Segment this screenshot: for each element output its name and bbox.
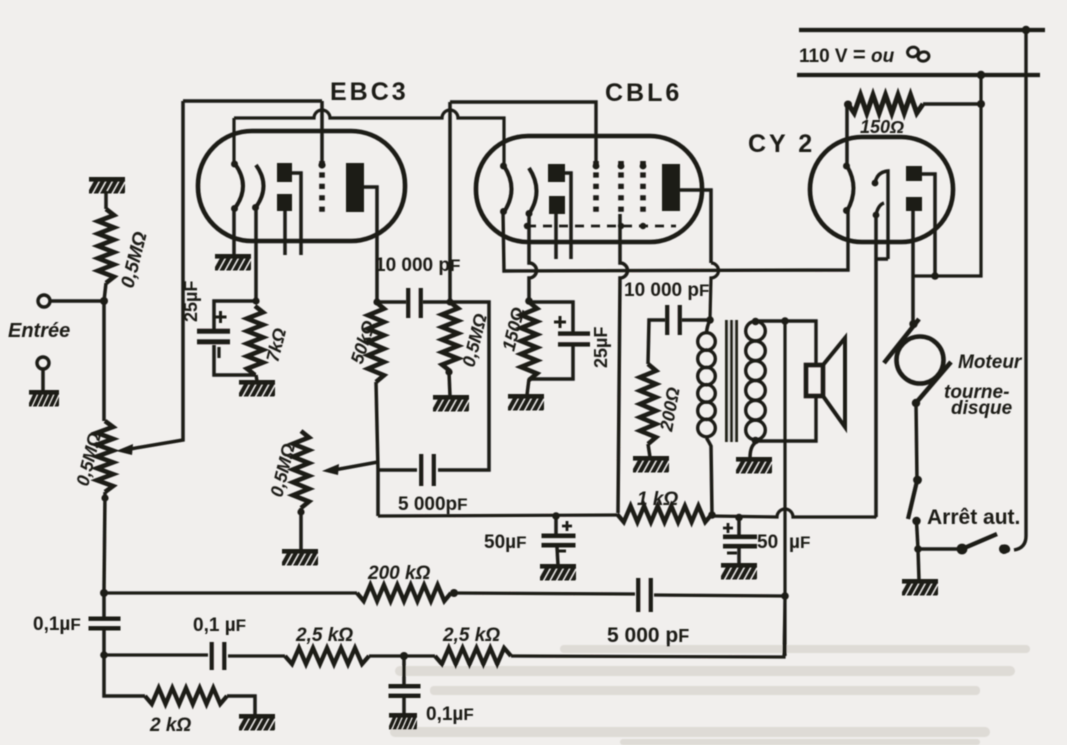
wire primary top connect	[707, 320, 711, 333]
wire arrow from EBC3 grid line to P1 wiper	[130, 101, 183, 449]
wire line E left section	[378, 515, 617, 516]
wire vertical from line A2 to coupling node	[448, 102, 452, 300]
wire C7 stub	[737, 518, 741, 535]
terminal Entree upper	[38, 295, 50, 307]
grid pins CBL6 upper square	[548, 164, 565, 182]
wire motor to switch S1	[916, 403, 917, 480]
internal dashed bus CBL6	[527, 225, 676, 228]
junction below P1	[101, 494, 108, 501]
wire R4 to ground	[449, 372, 450, 396]
filament bottom dot CY2	[843, 207, 850, 214]
ground CBL6 cathode	[507, 394, 550, 413]
internal bus dot 3	[640, 223, 646, 229]
wire line E corner up to CY2 cathode	[875, 515, 876, 519]
junction motor tap	[909, 320, 917, 328]
junction R4 bottom	[445, 368, 452, 375]
tube envelope CY2	[810, 137, 953, 242]
wire C1 bottom arm	[214, 345, 256, 375]
junction EBC3 plate load	[373, 298, 380, 305]
grid 2 top dot CBL6	[618, 163, 625, 170]
junction CBL6 cathode node	[525, 297, 533, 305]
junction line D at input column	[100, 651, 108, 659]
capacitor C5 10000pF	[665, 305, 682, 335]
minus tick C6	[556, 550, 566, 553]
junction switch node	[914, 545, 922, 553]
resistor R10 2,5 kOhm first	[285, 648, 369, 664]
wire line D seg3	[369, 654, 435, 657]
wire C4 bottom	[529, 346, 573, 379]
wire coupling node to tone cap branch	[438, 302, 489, 470]
wire R12 to ground	[227, 696, 255, 715]
switch S2 contact	[999, 544, 1010, 554]
junction primary top node	[706, 316, 714, 324]
svg-text:0,1µF: 0,1µF	[426, 704, 474, 725]
wire EBC3 plate to load junction	[364, 187, 377, 300]
svg-text:µF: µF	[789, 532, 810, 553]
svg-text:2 kΩ: 2 kΩ	[149, 715, 191, 736]
cathode hook upper CY2	[875, 171, 888, 259]
transformer T1 primary winding	[698, 333, 716, 437]
wire bias top arm to C1	[214, 301, 256, 331]
svg-text:7kΩ: 7kΩ	[262, 326, 290, 364]
minus tick C1	[217, 347, 220, 358]
junction tone divider	[400, 652, 408, 660]
grid 2 dashed CBL6	[618, 161, 624, 214]
capacitor C2 10000pF coupling	[406, 288, 423, 318]
svg-text:disque: disque	[951, 398, 1013, 419]
wire line D seg1	[104, 653, 208, 656]
ground secondary	[735, 457, 778, 476]
wire C5 right to primary node	[682, 318, 709, 322]
wire CY2 upper anode out	[922, 174, 935, 276]
node mains T2 tap	[977, 71, 985, 79]
wire line A2 coupling node to CBL6 grid	[450, 102, 596, 164]
heater arc CBL6	[504, 166, 512, 212]
heater arc bottom dot CBL6	[500, 208, 507, 215]
wire line D seg2	[228, 654, 285, 657]
svg-text:0,5MΩ: 0,5MΩ	[458, 312, 490, 369]
svg-text:2,5 kΩ: 2,5 kΩ	[295, 625, 353, 646]
terminal Entree lower	[37, 357, 49, 369]
resistor R8 1 kOhm filter	[617, 506, 712, 522]
svg-text:Moteur: Moteur	[958, 352, 1023, 373]
heater arc bottom dot EBC3	[231, 205, 238, 212]
cathode arc CBL6	[529, 168, 537, 214]
wire CBL6 lower square stub	[554, 214, 558, 259]
anode plate EBC3	[346, 163, 364, 212]
wire line C right	[654, 595, 785, 596]
wire CBL6 upper square stub	[565, 173, 571, 259]
cathode arc bottom dot CBL6	[526, 210, 533, 217]
speaker LS1 voice coil	[806, 365, 823, 396]
wire P1 bottom down to line C	[104, 492, 105, 592]
grid pins EBC3 lower square	[277, 194, 292, 211]
grid pins CBL6 lower square	[549, 196, 565, 214]
resistor R7 150 Ohm CY2 filament	[848, 95, 923, 113]
wire cathode jog	[876, 257, 888, 261]
svg-text:25µF: 25µF	[181, 281, 201, 322]
ground R12	[238, 714, 281, 733]
wire R2 bottom to ground	[256, 375, 257, 381]
svg-text:200Ω: 200Ω	[656, 386, 684, 434]
wire supply vertical to anodes	[913, 75, 981, 276]
wire junction to C2 left	[377, 300, 406, 304]
cathode arc EBC3	[256, 165, 264, 207]
heater arc top dot CBL6	[500, 163, 507, 170]
wire R5 to ground	[527, 379, 529, 395]
capacitor C8 5000pF	[636, 578, 653, 612]
wire line D seg4	[511, 597, 785, 657]
wire heater line B with crossover humps	[234, 110, 504, 166]
filament arc CY2	[847, 166, 854, 211]
tube envelope CBL6	[476, 136, 702, 242]
ground R4	[432, 395, 475, 414]
wire CBL6 heater bottom to supply line	[503, 212, 848, 271]
plus sign C6	[562, 521, 572, 531]
tube envelope EBC3	[198, 131, 405, 241]
grid column top dot EBC3	[318, 161, 325, 168]
minus tick C7	[727, 552, 737, 555]
capacitor C4 25uF electrolytic CBL6	[558, 331, 590, 346]
resistor R2 7 kOhm cathode EBC3	[247, 306, 263, 375]
potentiometer P1 0,5 MOhm volume	[97, 421, 113, 492]
svg-text:10 000 pF: 10 000 pF	[624, 280, 709, 301]
control grid dashed EBC3	[319, 161, 325, 213]
wire secondary top to speaker	[755, 321, 816, 365]
node A junction input	[100, 297, 108, 305]
grid 3 dashed CBL6	[640, 161, 646, 214]
junction below P2	[297, 508, 304, 515]
motor blade upper	[884, 319, 919, 363]
arrowhead on P1 wiper	[116, 444, 133, 455]
cathode arc bottom dot EBC3	[252, 204, 259, 211]
grid 1 dashed CBL6	[593, 161, 599, 214]
wire right border from T1 to switch	[1014, 30, 1026, 550]
wire C5 left to 200R	[648, 320, 665, 364]
wire R6 to ground	[648, 444, 650, 457]
wire CBL6 plate out	[680, 190, 711, 263]
wire primary bottom to 1k node	[707, 438, 713, 514]
junction R9 right	[450, 589, 458, 597]
wire EBC3 cathode down to bias network	[254, 208, 258, 300]
cathode hook upper dot	[872, 180, 879, 187]
potentiometer P2 0,5 MOhm tone	[293, 431, 309, 508]
ground C7	[720, 563, 763, 582]
wire C10 to ground	[402, 698, 406, 714]
wire C6 stub	[554, 517, 558, 534]
ground EBC3 heater	[214, 254, 257, 273]
resistor R3 50 kOhm plate load	[368, 302, 384, 382]
secondary top dot	[752, 318, 760, 326]
plus sign C7	[723, 523, 733, 533]
ground C10	[388, 713, 421, 732]
svg-text:CY 2: CY 2	[748, 130, 815, 158]
grid 1 top dot CBL6	[593, 163, 600, 170]
wire junction to S2 pivot	[918, 547, 960, 551]
wire EBC3 grid vertical	[320, 101, 324, 164]
wire node A down to potentiometer P1	[102, 301, 106, 421]
svg-text:200 kΩ: 200 kΩ	[367, 563, 431, 584]
heater arc EBC3	[235, 164, 243, 208]
resistor R9 200 kOhm	[357, 585, 451, 601]
grid pins EBC3 upper square	[277, 163, 292, 182]
junction coupling node grid CBL6	[446, 298, 453, 305]
wire P2 to ground	[299, 508, 303, 550]
svg-text:0,1µF: 0,1µF	[33, 614, 81, 635]
motor M1 turntable circle	[897, 337, 944, 384]
wire tone arrow	[334, 462, 378, 470]
wire secondary bottom to ground	[750, 443, 755, 458]
wire 50k bottom vertical to line E	[376, 382, 378, 516]
wire C7 to ground	[737, 548, 741, 565]
motor lower dot	[912, 399, 920, 407]
svg-text:50µF: 50µF	[484, 532, 526, 553]
switch S1 bottom dot	[912, 517, 920, 525]
arrowhead tone pot wiper	[322, 464, 339, 475]
wire secondary bottom to speaker	[755, 396, 816, 441]
ground C6	[539, 564, 582, 583]
filament top dot CY2	[843, 163, 850, 170]
R7 left dot	[844, 101, 852, 109]
svg-text:Entrée: Entrée	[8, 320, 70, 342]
wire divider to C10	[402, 656, 406, 686]
wire mains line T1 110V	[799, 28, 1045, 32]
wire CBL6 plate crossover hump	[710, 263, 719, 319]
wire C6 to ground	[557, 547, 558, 565]
capacitor C3 5000pF tone	[419, 454, 436, 486]
heater arc top dot EBC3	[231, 161, 238, 168]
junction EBC3 cathode bias top	[252, 297, 259, 304]
wire EBC3 lower square stub	[283, 211, 287, 255]
capacitor C1 25uF electrolytic	[197, 329, 230, 345]
switch S1 blade arret	[908, 481, 917, 519]
wire line C middle	[451, 593, 635, 594]
junction C6 top	[552, 512, 560, 520]
svg-text:150Ω: 150Ω	[860, 117, 904, 137]
wire CY2 cathode down to line E	[874, 215, 878, 517]
svg-text:25µF: 25µF	[591, 327, 611, 368]
resistor R5 150 Ohm cathode CBL6	[521, 302, 537, 380]
wire lower terminal to ground	[41, 369, 45, 391]
grid 3 top dot CBL6	[640, 163, 647, 170]
ground R6	[632, 456, 675, 475]
svg-text:0,1 µF: 0,1 µF	[193, 615, 246, 636]
capacitor C7 50uF electrolytic	[723, 535, 757, 549]
anode CY2 upper square	[906, 166, 922, 181]
wire ground to R1	[104, 191, 108, 209]
wire EBC3 upper square stub	[292, 173, 301, 255]
wire switch node to ground	[918, 549, 919, 580]
junction R8 right	[708, 511, 716, 519]
wire line A1 EBC3 grid to volume pot	[183, 99, 322, 103]
switch S1 top dot	[913, 476, 922, 485]
svg-text:2,5 kΩ: 2,5 kΩ	[442, 625, 500, 646]
svg-text:EBC3: EBC3	[330, 78, 409, 106]
anode plate CBL6	[662, 164, 680, 211]
wire S1 to junction	[917, 521, 919, 549]
ground switch node	[901, 579, 944, 598]
secondary bottom dot	[752, 437, 760, 445]
ground top of grid-leak resistor	[88, 177, 131, 196]
switch S2 pivot dot	[957, 544, 968, 555]
wire line C left	[104, 591, 357, 594]
motor blade lower	[915, 362, 951, 404]
capacitor C10 0,1uF	[389, 684, 421, 698]
svg-text:110 V = ou: 110 V = ou	[799, 42, 895, 67]
resistor R1 0,5 MOhm grid leak	[98, 209, 114, 283]
wire C2 right to coupling node	[423, 300, 449, 304]
transformer T1 core	[725, 320, 738, 442]
svg-text:50: 50	[757, 532, 778, 553]
wire CY2 filament to R7	[845, 104, 849, 166]
svg-text:CBL6: CBL6	[605, 79, 682, 107]
capacitor C9 0,1uF	[210, 642, 227, 670]
resistor R12 2 kOhm	[145, 688, 227, 704]
svg-text:10 000 pF: 10 000 pF	[375, 255, 460, 276]
resistor R11 2,5 kOhm second	[435, 648, 511, 664]
speaker LS1 cone	[823, 338, 845, 427]
node mains T1 tap	[1022, 26, 1030, 34]
anode CY2 lower square	[906, 197, 922, 211]
wire EBC3 heater to ground	[232, 209, 236, 254]
resistor R6 200 Ohm	[640, 364, 656, 444]
wire cathode node to C4	[529, 302, 573, 332]
switch S2 blade	[962, 534, 997, 549]
svg-text:0,5MΩ: 0,5MΩ	[117, 230, 151, 291]
internal bus dot 1	[524, 223, 530, 229]
junction C7 top	[735, 514, 743, 522]
junction feedback on line C	[781, 592, 789, 600]
svg-text:1 kΩ: 1 kΩ	[637, 489, 678, 510]
plus sign C1	[215, 311, 227, 323]
plus sign C4	[554, 316, 566, 328]
squiggle AC symbol	[906, 46, 930, 62]
junction speaker feedback tap	[781, 317, 789, 325]
wire CBL6 screen down to 1k filter	[618, 214, 628, 513]
wire R7 to supply vertical	[923, 102, 980, 106]
wire mains line T2 110V	[797, 73, 1040, 77]
transformer T1 secondary winding	[746, 321, 766, 440]
wire CBL6 cathode down	[529, 214, 537, 300]
cathode hook lower CY2	[876, 203, 884, 215]
wire feedback tap down to RC network	[783, 321, 786, 656]
wire C3 left to 50k bottom line	[379, 468, 417, 472]
junction anodes	[931, 272, 939, 280]
capacitor C6 50uF electrolytic	[542, 534, 576, 548]
ground below lower terminal	[28, 390, 63, 409]
wire line E right section with hump	[712, 509, 875, 518]
junction line C at input column	[100, 589, 108, 597]
resistor R4 0,5 MOhm grid CBL6	[442, 302, 458, 371]
ground tone pot P2	[281, 549, 324, 568]
capacitor C11 0,1uF input column	[89, 617, 121, 631]
wire CY2 lower anode down	[911, 211, 915, 324]
internal bus dot 2	[618, 223, 624, 229]
ground EBC3 bias network	[238, 380, 281, 399]
svg-text:5 000 pF: 5 000 pF	[607, 624, 689, 647]
svg-text:5 000pF: 5 000pF	[398, 494, 468, 515]
wire R1 bottom to node A	[104, 283, 106, 301]
R7 right dot	[977, 100, 985, 108]
svg-text:Arrêt aut.: Arrêt aut.	[927, 506, 1020, 529]
wire terminal to node A	[50, 299, 101, 303]
wire input column through caps	[104, 593, 145, 696]
cathode hook lower dot	[873, 212, 880, 219]
